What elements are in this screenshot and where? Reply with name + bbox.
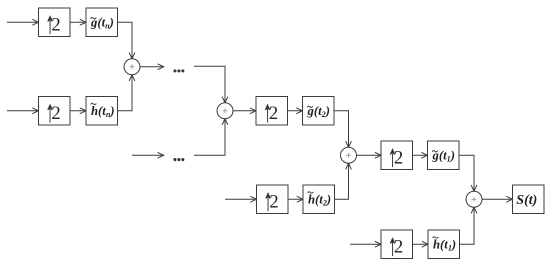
upsampler U5 (up-arrow 2) [381,141,413,170]
wire: detail input d1 into upsampler U6 [350,241,381,247]
svg-text:2: 2 [269,191,278,212]
filter G~(t_1) [428,141,460,170]
svg-text:g(t2): g(t2) [307,104,330,119]
svg-text:h(tn): h(tn) [91,104,115,119]
summer A4 (+) [466,191,482,207]
wire: U1 to filter G~n [70,19,86,25]
wire: upper ellipsis into summer A2 (top) [194,66,228,103]
upsampler U1 (up-arrow 2) [39,8,71,37]
wire: U6 to filter H~1 [413,241,429,247]
summer A2 (+) [217,103,233,119]
wire: H~(t_1) into summer A4 (bottom) [460,207,477,244]
wire: G~(t_2) into summer A3 (top) [334,111,351,148]
svg-text:S(t): S(t) [516,193,537,208]
svg-text:2: 2 [269,103,278,124]
svg-text:2: 2 [51,103,60,124]
wire: G~(t_n) into summer A1 (top) [118,22,135,59]
wire: H~(t_n) into summer A1 (bottom) [118,75,135,111]
filter H~(t_2) [303,185,335,214]
svg-text:h(t1): h(t1) [433,238,456,253]
wire: detail input into upsampler U2 [7,108,39,114]
wire: lower branch toward ellipsis [132,152,164,158]
filter G~(t_n) [86,8,118,37]
upsampler U2 (up-arrow 2) [39,97,71,126]
svg-text:g(t1): g(t1) [432,149,455,164]
upsampler U6 (up-arrow 2) [381,230,413,259]
wire: U5 to filter G~1 [413,152,428,158]
svg-text:2: 2 [394,236,403,257]
wire: lower ellipsis into summer A2 (bottom) [194,119,228,156]
upsampler U3 (up-arrow 2) [256,97,288,126]
svg-text:h(t2): h(t2) [308,193,331,208]
output block S(t) [513,185,545,214]
filter H~(t_n) [86,97,118,126]
wire: U3 to filter G~2 [288,108,303,114]
wire: U4 to filter H~2 [288,196,303,202]
upsampler U4 (up-arrow 2) [257,185,289,214]
node: ellipsis (omitted stages, upper) [174,70,184,72]
summer A1 (+) [124,59,140,75]
wire: summer A1 output toward ellipsis [140,64,164,70]
svg-text:g(tn): g(tn) [90,16,114,31]
wire: G~(t_1) into summer A4 (top) [459,155,477,191]
svg-text:2: 2 [394,147,403,168]
wire: H~(t_2) into summer A3 (bottom) [335,163,352,199]
filter G~(t_2) [303,97,335,126]
wire: summer A3 output into upsampler U5 [357,152,382,158]
wire: top-level input into upsampler U1 [7,19,39,25]
summer A3 (+) [341,147,357,163]
wire: summer A2 output into upsampler U3 [233,108,256,114]
wire: U2 to filter H~n [70,108,86,114]
node: ellipsis (omitted stages, lower) [174,159,184,161]
filter H~(t_1) [428,230,460,259]
svg-text:2: 2 [51,14,60,35]
wire: detail input d2 into upsampler U4 [225,196,257,202]
wire: summer A4 output into S(t) block [482,196,513,202]
